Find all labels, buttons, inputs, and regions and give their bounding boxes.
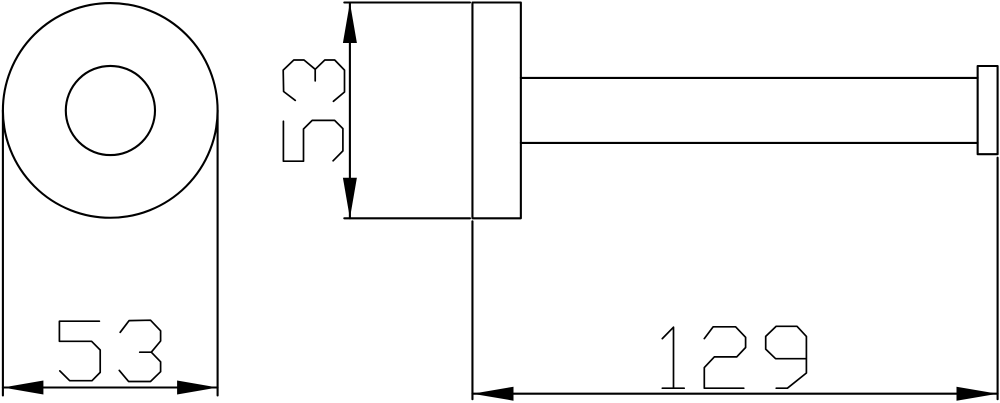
- right extension line of length dim: [997, 158, 999, 400]
- right arrowhead of 53 dim: [177, 381, 218, 395]
- bottom extension line of height dim: [344, 217, 470, 219]
- digit 5: [59, 321, 100, 381]
- digit 3 rotated: [283, 60, 344, 101]
- digit 3: [119, 320, 160, 381]
- dimension text 53 (front view): [59, 320, 160, 381]
- dimension line 129: [472, 393, 997, 395]
- up arrowhead of vertical 53 dim: [343, 3, 357, 44]
- top extension line of height dim: [344, 1, 470, 3]
- inner circle (front view hub): [66, 66, 155, 155]
- right arrowhead of 129 dim: [957, 387, 998, 401]
- dimension text 129: [662, 326, 806, 388]
- bar top line (side view): [521, 77, 978, 79]
- digit 2: [704, 327, 745, 388]
- down arrowhead of vertical 53 dim: [343, 178, 357, 219]
- digit 1: [662, 327, 684, 388]
- outer circle (front view of wall plate): [3, 3, 218, 218]
- digit 9: [766, 326, 807, 388]
- right extension line of width dim: [217, 110, 219, 395]
- left extension line of length dim: [471, 221, 473, 399]
- dimension line 53 (front view): [3, 386, 218, 388]
- digit 5 rotated: [283, 120, 343, 161]
- rotated dimension text 53 (side view): [283, 60, 344, 161]
- left extension line of width dim: [2, 110, 4, 395]
- mounting plate (side view): [472, 3, 520, 219]
- left arrowhead of 129 dim: [472, 387, 513, 401]
- end cap (side view): [978, 66, 998, 154]
- bar bottom line (side view): [521, 142, 978, 144]
- left arrowhead of 53 dim: [3, 381, 44, 395]
- vertical dimension line 53 (side view): [349, 3, 351, 219]
